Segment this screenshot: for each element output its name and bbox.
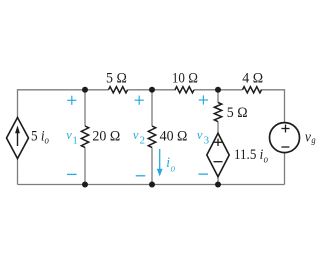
resistor 5ohm branch v3	[214, 103, 221, 122]
polarity plus v2	[135, 96, 144, 105]
wire top segment left (corner to node v1)	[18, 90, 109, 118]
dependent current source diamond 5io	[7, 118, 29, 159]
wire branch v3 middle (5ohm to diamond)	[217, 122, 219, 134]
wire branch v3 upper (node to 5ohm)	[217, 90, 219, 103]
polarity minus v1	[67, 173, 77, 175]
resistor 5ohm top	[109, 87, 128, 93]
wire top segment right (4ohm to right corner)	[261, 90, 285, 123]
wire right below voltage source	[284, 153, 286, 185]
svg-text:10 Ω: 10 Ω	[172, 70, 198, 87]
node bottom v2	[149, 182, 155, 188]
svg-text:5 Ω: 5 Ω	[106, 70, 127, 87]
wire top segment between 10ohm and 4ohm	[194, 89, 243, 91]
polarity minus v3	[198, 173, 208, 175]
svg-text:40 Ω: 40 Ω	[160, 128, 188, 145]
node top v2	[149, 87, 155, 93]
wire branch v1 lower	[84, 148, 86, 185]
wire branch v2 lower	[151, 148, 153, 185]
node bottom v3	[215, 182, 221, 188]
svg-text:20 Ω: 20 Ω	[92, 128, 120, 145]
wire top segment between 5ohm and 10ohm	[128, 89, 177, 91]
resistor 10ohm top	[175, 87, 194, 93]
resistor 4ohm top	[243, 87, 262, 93]
resistor 20ohm branch v1	[81, 126, 88, 147]
wire bottom rail	[18, 184, 285, 186]
wire branch v3 lower (diamond to bottom)	[217, 177, 219, 185]
wire left below current source	[17, 158, 19, 184]
resistor 40ohm branch v2	[148, 126, 155, 147]
svg-text:4 Ω: 4 Ω	[242, 70, 263, 87]
node top v1	[82, 87, 88, 93]
current arrow io	[157, 149, 163, 177]
polarity plus v3	[199, 95, 208, 104]
polarity plus v1	[67, 96, 76, 105]
svg-text:5 Ω: 5 Ω	[227, 104, 248, 121]
node top v3	[215, 87, 221, 93]
node bottom v1	[82, 182, 88, 188]
polarity minus v2	[136, 175, 146, 177]
independent voltage source vg	[270, 123, 300, 153]
wire branch v2 upper	[151, 90, 153, 126]
svg-text:11.5 io: 11.5 io	[234, 146, 268, 165]
wire branch v1 upper	[84, 90, 86, 126]
dependent voltage source diamond 11.5io	[207, 133, 229, 176]
